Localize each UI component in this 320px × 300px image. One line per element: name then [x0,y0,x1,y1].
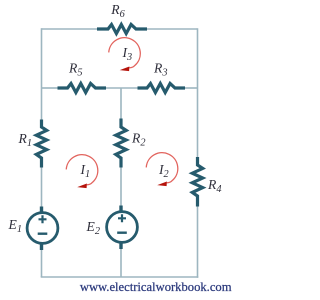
svg-text:I2: I2 [158,162,169,180]
resistor R5 [58,84,107,93]
wire R5-R3 row middle [105,87,139,89]
wire middle rail mid [120,167,122,206]
svg-text:E1: E1 [8,217,22,235]
svg-text:R3: R3 [153,61,167,79]
wire left rail upper [41,28,43,120]
wire top left segment [42,28,98,30]
wire middle rail lower [120,249,122,277]
wire right rail upper [197,28,199,157]
resistor R6 [97,25,147,34]
svg-text:I1: I1 [80,162,91,180]
wire R3 row right [185,87,198,89]
mesh loop I2 [146,153,178,186]
svg-text:R4: R4 [207,177,221,195]
mesh loop I1 [66,155,98,188]
svg-text:R6: R6 [110,2,125,20]
mesh loop I3 [109,38,141,71]
resistor R2 [116,119,126,168]
resistor R3 [138,84,186,93]
svg-text:www.electricalworkbook.com: www.electricalworkbook.com [80,280,232,294]
wire left rail lower [41,250,43,277]
wire R5 row left [42,87,58,89]
svg-text:E2: E2 [86,219,100,237]
wire bottom [41,276,199,278]
wire top right segment [147,28,198,30]
resistor R4 [192,157,202,207]
svg-text:R1: R1 [18,131,32,149]
source E1 [27,207,58,251]
wire middle rail upper [120,88,122,119]
svg-text:R5: R5 [68,61,82,79]
svg-text:I3: I3 [122,45,133,63]
source E2 [107,206,138,250]
wire left rail mid [41,167,43,207]
resistor R1 [36,120,46,168]
wire right rail lower [197,206,199,278]
svg-text:R2: R2 [131,131,145,149]
